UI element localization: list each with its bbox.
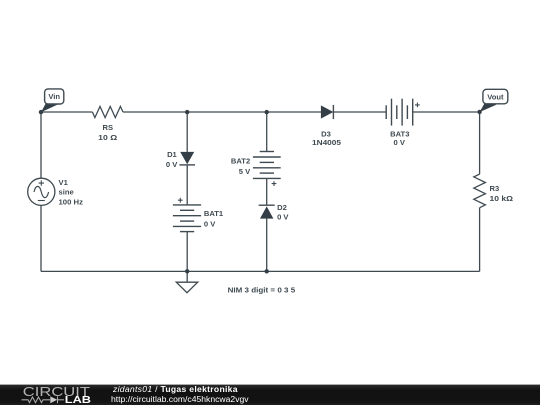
battery BAT2 bbox=[231, 152, 281, 187]
svg-text:D1: D1 bbox=[167, 150, 177, 159]
diode D1 bbox=[166, 150, 195, 169]
svg-text:10 kΩ: 10 kΩ bbox=[490, 194, 514, 203]
svg-text:0 V: 0 V bbox=[166, 160, 178, 169]
wire bottom rail bbox=[41, 270, 480, 272]
resistor R3 bbox=[474, 174, 513, 208]
CircuitLab logo resistor-diode glyph bbox=[22, 396, 65, 403]
junction dot bottom of D2 branch bbox=[265, 269, 269, 273]
svg-text:D2: D2 bbox=[277, 203, 287, 212]
svg-text:V1: V1 bbox=[59, 178, 69, 187]
ground bbox=[176, 271, 197, 292]
svg-text:http://circuitlab.com/c45hkncw: http://circuitlab.com/c45hkncwa2vgv bbox=[111, 394, 249, 404]
svg-text:0 V: 0 V bbox=[204, 219, 216, 228]
junction dot top of BAT2 branch bbox=[265, 110, 269, 114]
svg-text:sine: sine bbox=[59, 188, 74, 197]
svg-text:Vin: Vin bbox=[48, 92, 60, 101]
junction dot at Vin node bbox=[39, 110, 43, 114]
wire right Vout node to R3 bbox=[479, 112, 481, 174]
wire D2 to bottom rail bbox=[266, 219, 268, 272]
wire top from RS to D3 bbox=[123, 111, 321, 113]
svg-text:10 Ω: 10 Ω bbox=[98, 133, 117, 142]
wire BAT2 to D2 bbox=[266, 178, 268, 205]
diode D3 bbox=[312, 105, 342, 147]
svg-text:0 V: 0 V bbox=[393, 138, 405, 147]
wire left V1 to bottom rail bbox=[40, 205, 42, 271]
wire D1 to BAT1 bbox=[186, 165, 188, 205]
wire branch node to D1 bbox=[186, 112, 188, 152]
wire left Vin node to V1 bbox=[40, 112, 42, 178]
wire top from D3 to BAT3 bbox=[333, 111, 386, 113]
footer bar bbox=[0, 385, 540, 405]
svg-text:R3: R3 bbox=[490, 184, 500, 193]
wire top from BAT3 to Vout node bbox=[413, 111, 480, 113]
diode D2 bbox=[259, 203, 290, 222]
junction dot bottom of BAT1 branch bbox=[185, 269, 189, 273]
junction dot at Vout node bbox=[477, 110, 481, 114]
resistor RS bbox=[92, 106, 123, 141]
svg-text:100 Hz: 100 Hz bbox=[59, 197, 84, 206]
wire branch node to BAT2 bbox=[266, 112, 268, 152]
svg-text:zidants01 / Tugas elektronika: zidants01 / Tugas elektronika bbox=[112, 384, 238, 394]
wire right R3 to bottom rail bbox=[479, 208, 481, 272]
svg-text:BAT2: BAT2 bbox=[231, 157, 250, 166]
junction dot top of D1 branch bbox=[185, 110, 189, 114]
svg-text:Vout: Vout bbox=[487, 92, 504, 101]
svg-text:5 V: 5 V bbox=[239, 167, 251, 176]
node Vin flag bbox=[41, 89, 64, 112]
node Vout flag bbox=[480, 89, 508, 112]
svg-text:RS: RS bbox=[103, 123, 114, 132]
wire top from Vin node to RS bbox=[41, 111, 92, 113]
voltage source V1 bbox=[28, 178, 84, 207]
svg-text:1N4005: 1N4005 bbox=[312, 138, 342, 147]
svg-text:0 V: 0 V bbox=[277, 213, 289, 222]
battery BAT1 bbox=[173, 198, 224, 232]
svg-text:NIM 3 digit = 0 3 5: NIM 3 digit = 0 3 5 bbox=[228, 285, 296, 294]
svg-text:LAB: LAB bbox=[65, 395, 91, 405]
svg-text:BAT1: BAT1 bbox=[204, 209, 224, 218]
battery BAT3 bbox=[386, 99, 420, 147]
wire BAT1 to bottom rail bbox=[186, 232, 188, 272]
